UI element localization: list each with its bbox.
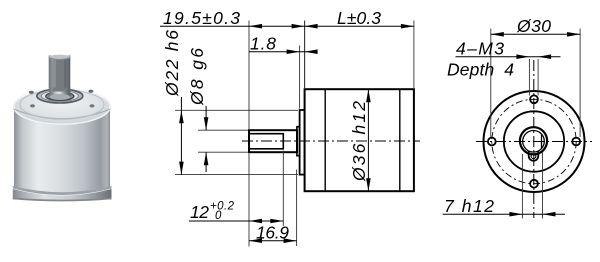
- front boss circle O22: [504, 111, 564, 171]
- svg-text:Ø22 h6: Ø22 h6: [162, 30, 182, 97]
- O30 dimension line: [491, 33, 580, 35]
- front shaft flat chord: [541, 134, 543, 149]
- arrow 19.5 right: [292, 24, 305, 29]
- arrow 7h12 left: [509, 212, 522, 217]
- arrow 19.5 left: [249, 24, 262, 29]
- arrow O8 top: [204, 117, 209, 130]
- M3 hole bottom: [530, 180, 538, 188]
- svg-text:Ø36 h12: Ø36 h12: [349, 101, 369, 182]
- 4-M3 hole extension lines: [528, 59, 530, 96]
- arrow 4-M3 right: [538, 54, 551, 59]
- front outer circle O36: [484, 91, 585, 192]
- shaft flat region: [249, 134, 283, 149]
- shaft step O10: [297, 127, 300, 156]
- gearbox body outline: [305, 89, 414, 191]
- dim O8 vertical line: [205, 106, 207, 130]
- M3 hole right: [572, 138, 580, 146]
- photo face inner ring: [20, 90, 104, 120]
- arrow O30 right: [567, 32, 580, 37]
- svg-text:+0.2: +0.2: [210, 201, 235, 213]
- 7h12 extension lines: [521, 154, 523, 219]
- body internal line front: [324, 89, 326, 191]
- output shaft O8: [249, 130, 297, 152]
- extension line boss face: [299, 46, 301, 109]
- front centerline horizontal: [476, 141, 592, 143]
- O30 extension lines: [490, 29, 492, 138]
- photo bearing rings: [37, 89, 83, 103]
- dim O36 vertical line inside body: [367, 89, 369, 191]
- arrow 12 right: [270, 219, 283, 224]
- extension line body rear face: [413, 21, 415, 89]
- svg-text:12: 12: [190, 202, 209, 222]
- svg-text:19.5±0.3: 19.5±0.3: [163, 8, 240, 28]
- arrow O8 bottom: [204, 152, 209, 165]
- arrow 16.9 left: [249, 238, 262, 243]
- front bottom slot: [529, 152, 539, 161]
- photo screws on face: [29, 91, 34, 94]
- arrow 7h12 right: [543, 212, 556, 217]
- arrow 1.8 left: [287, 49, 300, 54]
- photo top face ellipse: [13, 88, 111, 125]
- pilot boss O22: [300, 110, 305, 175]
- arrow O36 top: [366, 89, 371, 102]
- svg-text:Ø30: Ø30: [516, 16, 551, 36]
- svg-text:L±0.3: L±0.3: [337, 8, 381, 28]
- photo bottom base band: [13, 186, 112, 195]
- front shaft O8 circle: [523, 131, 545, 153]
- front centerline vertical: [533, 60, 535, 218]
- extension line body front face: [304, 21, 306, 89]
- front shaft outer circle: [520, 127, 547, 154]
- dimension line 19.5 and L: [160, 25, 414, 27]
- front bottom slot inner circle: [531, 154, 536, 159]
- body internal line rear: [399, 89, 401, 191]
- dim O8: extension lines: [198, 129, 248, 131]
- dimension line 12: [189, 220, 283, 222]
- arrow 16.9 right: [284, 238, 297, 243]
- photo output shaft: [49, 56, 71, 100]
- arrow O30 left: [491, 32, 504, 37]
- photo shaft over face: [49, 88, 70, 98]
- svg-text:4–M3: 4–M3: [456, 39, 504, 59]
- photo cap shadow arc: [14, 109, 111, 119]
- arrow 4-M3 left: [516, 54, 529, 59]
- dim O22 vertical line: [180, 97, 182, 175]
- arrow 12 left: [249, 219, 262, 224]
- dimension line 1.8: [249, 51, 317, 53]
- photo cylinder body: [14, 108, 110, 194]
- svg-text:Depth 4: Depth 4: [447, 60, 514, 80]
- svg-text:7 h12: 7 h12: [444, 196, 494, 216]
- arrow O22 bottom: [179, 162, 184, 175]
- centerline side view: [242, 140, 420, 142]
- dimension line 16.9: [249, 240, 297, 242]
- arrow L right: [401, 24, 414, 29]
- svg-text:1.8: 1.8: [250, 34, 276, 54]
- extension line shaft shoulder: [296, 170, 298, 247]
- 4-M3 leader line: [456, 56, 561, 58]
- arrow O36 bottom: [366, 178, 371, 191]
- M3 hole left: [488, 138, 496, 146]
- arrow 1.8 right: [305, 49, 318, 54]
- dim O22: extension lines: [175, 109, 298, 111]
- photo: planetary gearbox product image: [13, 55, 112, 202]
- bolt circle O30 dash-dot: [492, 99, 576, 183]
- arrow O22 top: [179, 110, 184, 123]
- svg-text:16.9: 16.9: [256, 223, 289, 243]
- svg-text:0: 0: [215, 210, 222, 222]
- arrow L left: [305, 24, 318, 29]
- M3 hole top: [530, 95, 538, 103]
- svg-text:Ø8 g6: Ø8 g6: [187, 48, 207, 106]
- extension line flat end: [282, 151, 284, 227]
- extension line shaft tip: [248, 21, 250, 130]
- 7h12 dimension line: [443, 213, 565, 215]
